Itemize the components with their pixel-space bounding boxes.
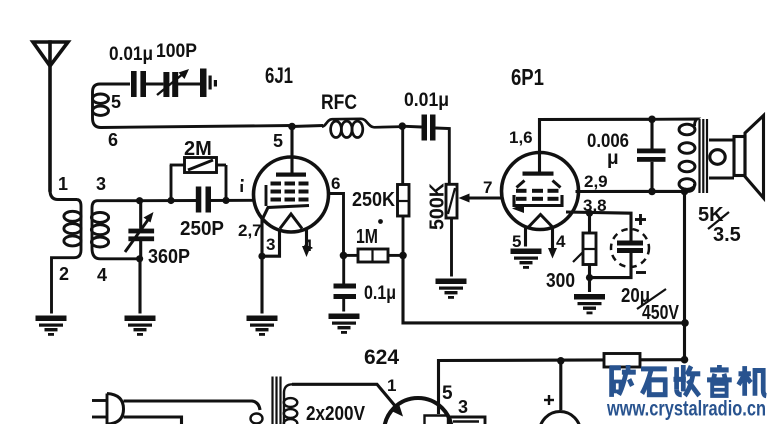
svg-text:300: 300 xyxy=(546,270,575,292)
svg-text:3: 3 xyxy=(458,397,468,417)
wire AC top xyxy=(124,401,261,410)
node: junction at 250K top xyxy=(399,122,407,130)
ground (6J1 cathode) xyxy=(247,316,278,336)
wire pin 3 of 6J1 xyxy=(262,231,280,257)
svg-text:0.1μ: 0.1μ xyxy=(364,283,396,304)
svg-text:4: 4 xyxy=(97,265,107,285)
node: junction dots 360P xyxy=(136,197,143,204)
char yin xyxy=(707,365,732,396)
svg-text:3.5: 3.5 xyxy=(713,224,741,246)
watermark Chinese characters xyxy=(610,365,767,397)
6J1 grid side bracket xyxy=(265,185,268,206)
svg-text:5: 5 xyxy=(111,92,121,112)
svg-text:5K: 5K xyxy=(698,204,724,226)
resistor (filter) on lower bus xyxy=(604,354,640,368)
capacitor 0.01u (antenna) xyxy=(131,71,163,97)
variable capacitor 360P xyxy=(125,201,154,314)
potentiometer 500K xyxy=(446,184,457,276)
ground (6P1 pin5) xyxy=(511,249,542,269)
svg-text:6: 6 xyxy=(331,174,340,193)
capacitor electrolytic (filter, cut) xyxy=(540,412,581,424)
wire 6P1 pins 2,9 xyxy=(576,190,685,193)
capacitor 0.01u (coupling) xyxy=(422,115,436,141)
svg-text:5: 5 xyxy=(442,383,453,404)
resistor 2M (grid leak) xyxy=(170,158,226,201)
transformer primary L1 (pins 1-2) xyxy=(52,200,82,314)
wire cap to volume pot xyxy=(436,128,450,184)
wire to ground xyxy=(588,278,591,292)
node: filter cap branch xyxy=(557,357,565,365)
svg-text:2: 2 xyxy=(59,264,69,284)
wire 6J1 pin 6 xyxy=(327,194,344,256)
node: transformer bottom junction xyxy=(681,188,689,196)
node: cathode network top xyxy=(586,210,593,217)
svg-text:624: 624 xyxy=(364,346,399,369)
svg-text:4: 4 xyxy=(303,236,313,255)
svg-text:4: 4 xyxy=(556,232,566,251)
6J1 cathode line + pin 2,7 lead xyxy=(262,206,309,257)
tube rectifier (cut) xyxy=(384,398,452,424)
svg-text:500K: 500K xyxy=(427,182,449,230)
tube 6J1 xyxy=(254,157,329,232)
ground (500K) xyxy=(436,279,467,299)
svg-text:2x200V: 2x200V xyxy=(306,403,366,424)
ground sideways (antenna trimmer) xyxy=(200,69,217,98)
transformer secondary L2 (pins 3-4) xyxy=(91,201,139,259)
resistor 250K xyxy=(398,126,410,255)
svg-text:360P: 360P xyxy=(148,246,190,268)
svg-text:μ: μ xyxy=(607,148,619,169)
wire AC bottom xyxy=(124,417,182,424)
ground (0.1u) xyxy=(329,314,360,334)
node: 2M junction dots xyxy=(167,197,174,204)
ground (pin 2) xyxy=(36,316,67,336)
transformer 624 core xyxy=(273,377,281,424)
wire B+ vertical xyxy=(683,191,686,359)
6J1 heater xyxy=(280,214,302,229)
rectifier internals xyxy=(450,417,485,424)
svg-text:www.crystalradio.cn: www.crystalradio.cn xyxy=(606,398,766,421)
wire HV secondary to rectifier xyxy=(292,384,396,407)
char ji xyxy=(739,366,767,396)
char shou xyxy=(674,365,701,396)
transformer output primary xyxy=(652,119,697,191)
6P1 anode bar xyxy=(523,172,554,176)
svg-text:7: 7 xyxy=(483,178,492,197)
svg-text:2M: 2M xyxy=(184,138,212,160)
wire top bus to RFC xyxy=(292,126,323,127)
ground (300) xyxy=(574,294,605,314)
svg-text:5: 5 xyxy=(512,232,521,251)
6J1 grid dashes xyxy=(271,182,309,202)
6P1 beam plates xyxy=(517,181,561,188)
capacitor 0.1u xyxy=(334,255,357,311)
svg-text:1,6: 1,6 xyxy=(509,128,533,147)
wire 6P1 plate stem xyxy=(540,119,653,172)
resistor 1M xyxy=(344,249,404,262)
label + xyxy=(635,214,646,273)
capacitor electrolytic (cathode bypass) xyxy=(611,229,649,267)
speaker xyxy=(709,116,764,199)
wire cap bottom to 300 xyxy=(590,253,632,278)
svg-text:0.01μ: 0.01μ xyxy=(404,90,449,111)
svg-text:6J1: 6J1 xyxy=(265,63,293,88)
wire to coupling cap xyxy=(402,125,421,129)
svg-text:6: 6 xyxy=(108,130,118,150)
heater arrow pin 4 of 6P1 xyxy=(551,228,554,251)
transformer 624 secondary xyxy=(284,384,298,424)
resistor 300 xyxy=(583,213,596,277)
pin label 1 (6J1 grid tick) xyxy=(241,179,244,192)
char shi xyxy=(641,369,667,395)
inductor RFC xyxy=(322,119,402,138)
6P1 cathode cup xyxy=(514,195,562,206)
wire B+ bus upper xyxy=(403,255,685,323)
wire grid line 6J1 xyxy=(140,199,201,202)
svg-text:250K: 250K xyxy=(352,189,396,211)
svg-text:RFC: RFC xyxy=(321,91,357,114)
svg-text:250P: 250P xyxy=(180,218,224,240)
svg-text:450V: 450V xyxy=(642,302,680,324)
wire 6P1 pin 5 to ground xyxy=(524,226,527,247)
6P1 heater xyxy=(529,215,553,228)
node: cathode network bottom xyxy=(586,274,593,281)
svg-text:3: 3 xyxy=(96,174,106,194)
coupling coil L3 (pins 5-6) xyxy=(93,84,293,128)
6P1 grid dashes xyxy=(516,189,559,201)
svg-text:2,7: 2,7 xyxy=(238,221,262,240)
wire cathode to ground xyxy=(260,256,263,313)
wire antenna to primary coil xyxy=(50,190,77,200)
wire B+ bus lower xyxy=(439,360,685,414)
wire 6J1 plate stem (pin 5) xyxy=(290,127,293,174)
loop at transformer primary xyxy=(251,414,263,424)
char kuang xyxy=(610,365,636,397)
capacitor 250P xyxy=(196,187,211,213)
wire to filter cap xyxy=(559,361,562,410)
svg-text:0.01μ: 0.01μ xyxy=(109,44,153,65)
6J1 anode bar xyxy=(276,173,306,177)
heater arrow pin 4 of 6J1 xyxy=(305,228,308,249)
node: cathode junction xyxy=(258,253,265,260)
node: 0.006 junctions xyxy=(648,116,656,124)
svg-text:2,9: 2,9 xyxy=(584,172,608,191)
power plug xyxy=(92,394,124,424)
svg-text:1: 1 xyxy=(58,174,68,194)
node: 1M junction dots xyxy=(340,252,348,260)
wire 6P1 pins 3,8 xyxy=(566,212,631,241)
svg-text:100P: 100P xyxy=(156,41,197,62)
wiper arrow to 6P1 grid xyxy=(468,197,501,200)
antenna xyxy=(33,42,68,190)
svg-text:1M: 1M xyxy=(356,226,378,248)
svg-text:6P1: 6P1 xyxy=(511,64,544,90)
variable capacitor 100P xyxy=(157,69,200,97)
svg-text:3: 3 xyxy=(266,235,275,254)
transformer core xyxy=(700,119,708,193)
label + (filter cap) xyxy=(544,395,554,405)
tube 6P1 xyxy=(502,153,579,230)
node: B+ dots xyxy=(681,319,689,327)
node: plate junction xyxy=(288,123,296,131)
ground (360P) xyxy=(125,316,156,336)
capacitor 0.006u xyxy=(637,119,666,191)
svg-text:1: 1 xyxy=(387,376,396,395)
svg-text:5: 5 xyxy=(273,131,283,151)
